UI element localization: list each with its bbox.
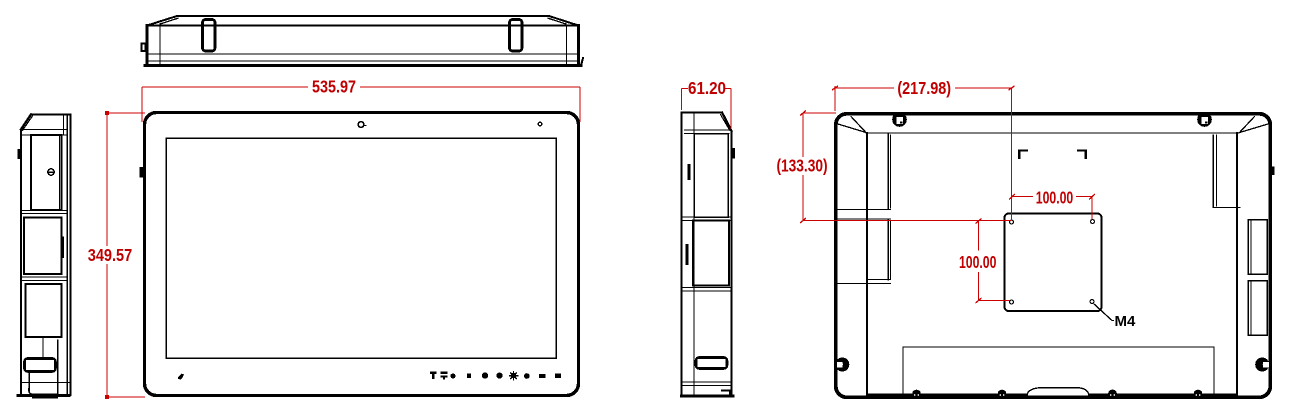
svg-text:349.57: 349.57 [88, 246, 133, 266]
svg-text:535.97: 535.97 [312, 78, 356, 97]
svg-text:61.20: 61.20 [688, 79, 726, 98]
svg-text:(133.30): (133.30) [776, 157, 827, 176]
svg-text:100.00: 100.00 [959, 253, 997, 273]
svg-text:100.00: 100.00 [1036, 188, 1074, 208]
svg-text:(217.98): (217.98) [897, 80, 951, 98]
svg-text:M4: M4 [1115, 313, 1136, 330]
